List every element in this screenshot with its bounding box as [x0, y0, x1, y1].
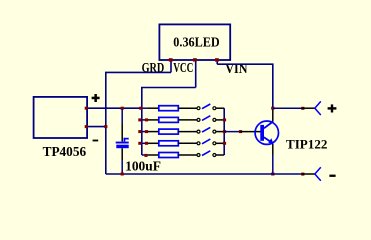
junction right bus row2 [223, 118, 226, 121]
resistor R4 right pin [178, 142, 197, 144]
port chevron plus [315, 101, 321, 115]
transistor Q1 body circle [255, 121, 278, 144]
svg-text:TIP122: TIP122 [286, 136, 327, 151]
U2 plus pin square [85, 107, 88, 110]
resistor R3 right pin [178, 131, 197, 133]
switch SW2 right contact [213, 118, 216, 121]
svg-text:100uF: 100uF [125, 159, 161, 174]
wire VIN net to collector column [217, 64, 273, 108]
U1 pin GRD square [169, 58, 173, 61]
resistor R2 right pin [178, 119, 197, 121]
resistor R5 left wire [142, 154, 159, 156]
resistor R1 right pin [178, 107, 197, 109]
right switch bus [223, 108, 225, 155]
port chevron minus [315, 167, 321, 181]
port label minus [329, 175, 335, 177]
switch SW4 right contact [213, 142, 216, 145]
resistor R2 left wire [142, 119, 159, 121]
switch SW1 left contact [197, 107, 200, 110]
Q1 emitter pin [272, 144, 274, 174]
charger module U2 box TP4056 [34, 97, 88, 138]
switch SW4 lever [202, 139, 210, 144]
switch SW3 lever [202, 127, 210, 132]
resistor R3 body [159, 129, 179, 134]
junction capacitor / ground rail [121, 173, 124, 176]
transistor Q1 base pin [240, 131, 260, 133]
pin label GRD [142, 61, 165, 76]
resistor R5 right pin [178, 154, 197, 156]
transistor Q1 emitter stroke [264, 137, 272, 142]
wire BAT- from U2 to ground bus [87, 126, 106, 128]
wire BAT+ from U2 to resistor bus [87, 107, 142, 109]
junction left bus row2 [138, 118, 148, 121]
U2 plus pin label [92, 94, 100, 102]
wire VCC net down to resistor bus [142, 88, 196, 109]
junction right bus row3 [223, 130, 226, 133]
switch SW1 right pin [216, 107, 224, 109]
switch SW3 right pin [216, 131, 224, 133]
switch SW5 left contact [197, 154, 200, 157]
resistor R1 body [159, 106, 179, 111]
junction BAT+ / capacitor C1 [121, 107, 124, 110]
transistor Q1 collector stroke [264, 122, 273, 129]
LED display module U1 box [159, 24, 230, 60]
capacitor C1 negative plate [116, 145, 128, 149]
output minus end square [301, 173, 304, 176]
resistor R4 body [159, 141, 179, 146]
switch SW2 right pin [216, 119, 224, 121]
switch SW1 lever [202, 104, 210, 109]
output plus end square [301, 107, 304, 110]
wire base net from right bus [224, 131, 240, 133]
switch SW5 lever [202, 151, 210, 156]
output minus port pin [301, 173, 315, 175]
U1 pin VCC stub [195, 60, 197, 88]
U2 minus pin square [85, 125, 88, 128]
transistor Q1 emitter arrowhead [268, 138, 273, 144]
switch SW5 right contact [213, 154, 216, 157]
resistor R1 left wire [142, 107, 159, 109]
switch SW4 right pin [216, 142, 224, 144]
junction right bus row4 [223, 142, 226, 145]
U2 name label TP4056 [43, 145, 87, 160]
junction collector / VIN / output+ [271, 107, 274, 110]
junction left bus row3 [138, 130, 148, 133]
switch SW3 left contact [197, 130, 200, 133]
wire GRD net down to ground rail [106, 72, 171, 174]
svg-text:TP4056: TP4056 [43, 145, 87, 160]
pin label VIN [225, 62, 247, 77]
capacitor C1 bottom pin wire [121, 148, 123, 174]
switch SW3 right contact [213, 130, 216, 133]
base wire end square [239, 130, 242, 133]
switch SW4 left contact [197, 142, 200, 145]
resistor R5 body [159, 153, 179, 158]
output plus port pin [301, 107, 315, 109]
svg-text:GRD: GRD [142, 61, 165, 76]
svg-text:0.36LED: 0.36LED [173, 36, 219, 51]
capacitor C1 polarity mark [124, 138, 129, 142]
junction left bus row1 [139, 107, 142, 110]
port label plus [328, 104, 337, 112]
switch SW5 right pin [216, 154, 224, 156]
left resistor bus [141, 108, 143, 155]
svg-text:VCC: VCC [173, 61, 193, 76]
switch SW1 right contact [213, 107, 216, 110]
Q1 collector pin [272, 108, 274, 121]
resistor R2 body [159, 117, 179, 122]
switch SW2 left contact [197, 118, 200, 121]
U1 pin VIN square [215, 58, 219, 61]
junction BAT- / ground bus [104, 125, 107, 128]
Q1 name label TIP122 [286, 136, 327, 151]
junction emitter / ground rail [271, 173, 274, 176]
U1 pin VIN stub [216, 60, 218, 64]
ground rail wire [106, 173, 301, 175]
pin label VCC [173, 61, 193, 76]
capacitor C1 top pin wire [121, 109, 123, 142]
resistor R3 left wire [142, 131, 159, 133]
resistor R4 left wire [142, 142, 159, 144]
U2 minus pin label [93, 140, 99, 142]
capacitor C1 positive plate [116, 142, 129, 144]
junction left bus row5 [144, 154, 147, 157]
switch SW2 lever [202, 116, 210, 121]
C1 value label 100uF [125, 159, 161, 174]
transistor Q1 base bar [260, 125, 264, 141]
U1 value label 0.36LED [173, 36, 219, 51]
U1 pin VCC square [193, 58, 197, 61]
U1 pin GRD stub [170, 60, 172, 72]
junction left bus row4 [138, 142, 148, 145]
wire output plus [273, 107, 301, 109]
